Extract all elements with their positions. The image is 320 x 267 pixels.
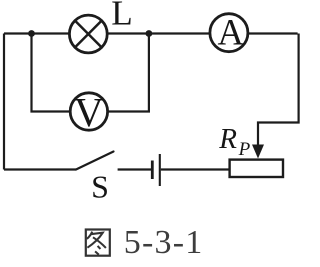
svg-text:P: P: [238, 139, 251, 160]
svg-text:R: R: [218, 123, 237, 155]
svg-text:S: S: [91, 169, 109, 205]
svg-text:L: L: [111, 0, 133, 32]
svg-text:A: A: [218, 12, 245, 53]
svg-text:V: V: [74, 89, 104, 135]
svg-text:5-3-1: 5-3-1: [124, 224, 204, 261]
